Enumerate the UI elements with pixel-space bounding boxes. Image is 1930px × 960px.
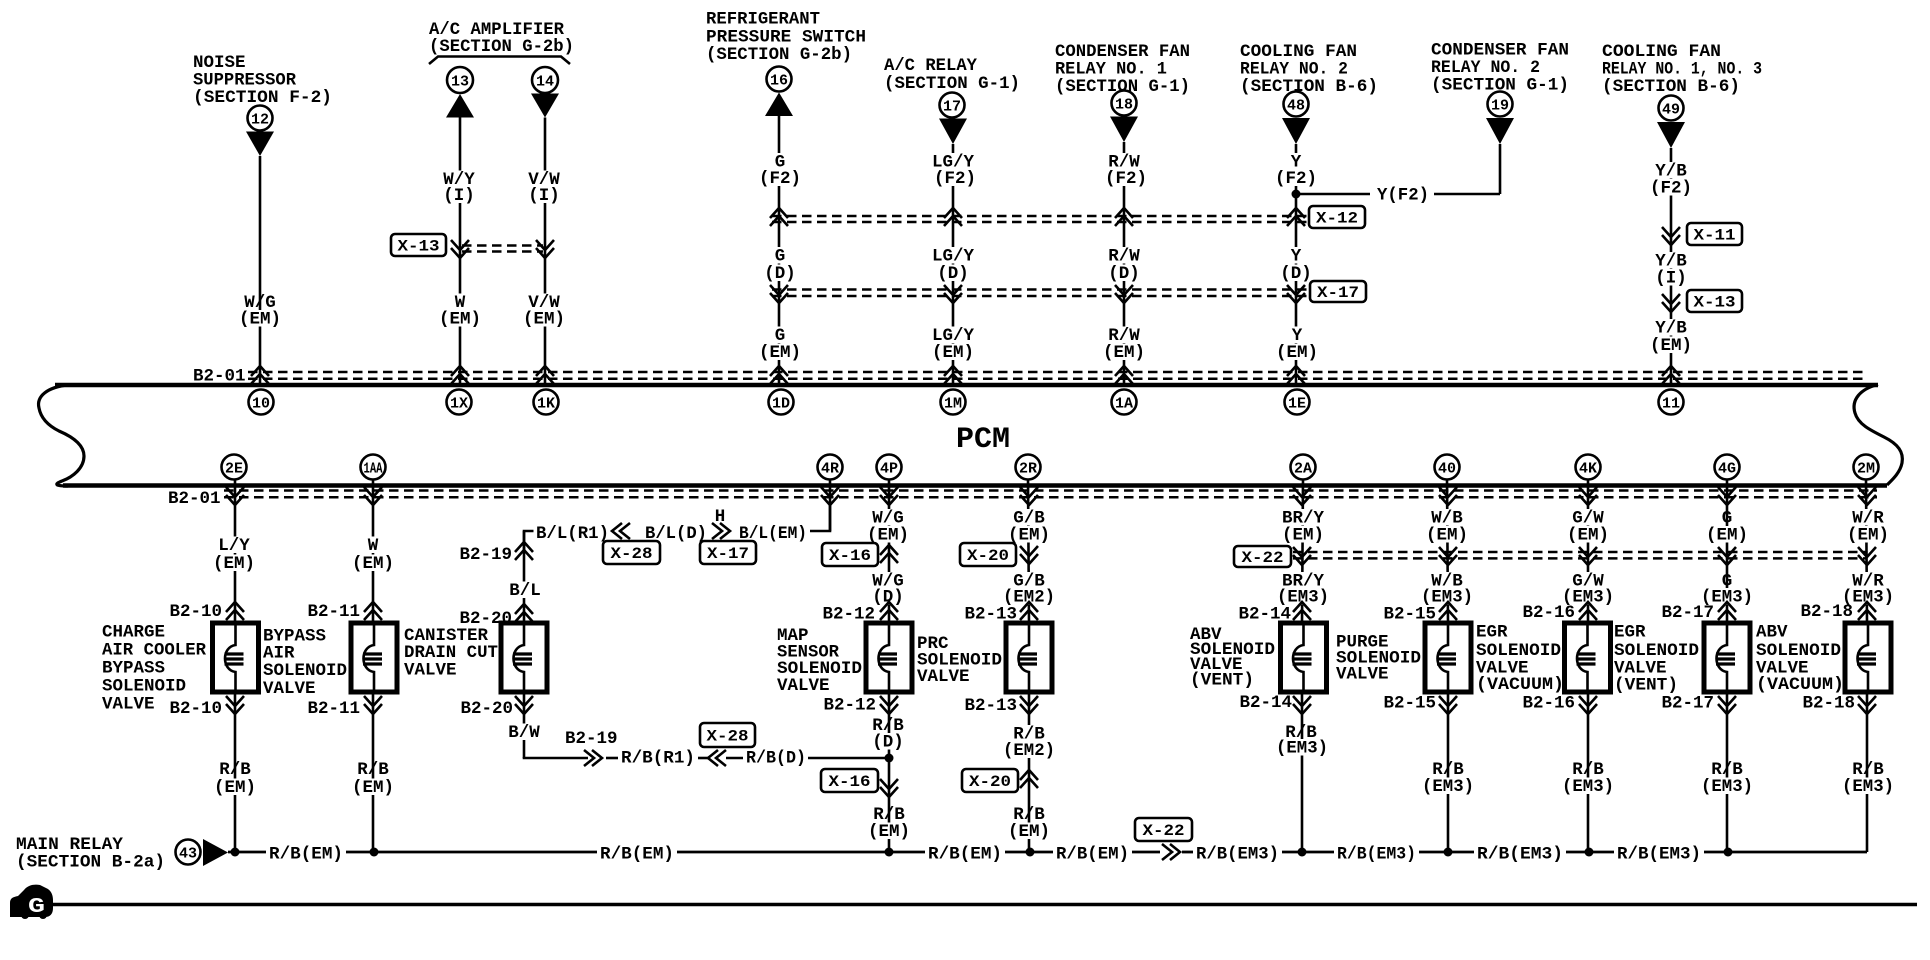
label W (EM): [365, 537, 381, 554]
wire R/B(D) to junction: [808, 757, 889, 760]
svg-text:1M: 1M: [944, 395, 962, 412]
inline connector X-22 on bus: [1162, 844, 1180, 860]
wire R/B col 40: [1447, 692, 1450, 852]
svg-text:X-20: X-20: [967, 547, 1009, 565]
wire R/B bus segment 10: [1704, 851, 1867, 854]
svg-text:CHARGE: CHARGE: [102, 623, 165, 643]
svg-text:49: 49: [1662, 101, 1680, 118]
svg-text:4G: 4G: [1718, 460, 1736, 477]
svg-text:B2-15: B2-15: [1383, 694, 1436, 714]
B2-01 top dashed upper: [248, 371, 1866, 374]
svg-text:(I): (I): [443, 186, 475, 206]
label W/B (EM3): [1429, 572, 1466, 589]
PCM pin 1E: [1285, 390, 1310, 415]
svg-text:ABV: ABV: [1756, 623, 1788, 643]
svg-text:12: 12: [251, 111, 269, 128]
B2-12 chevron (bottom): [880, 696, 898, 714]
svg-text:(SECTION G-1): (SECTION G-1): [884, 74, 1020, 94]
svg-text:B2-19: B2-19: [565, 729, 618, 749]
PCM pin 1A: [1112, 390, 1137, 415]
connector ref X-17: [1310, 281, 1366, 302]
svg-text:VALVE: VALVE: [777, 676, 830, 696]
svg-text:(I): (I): [528, 186, 560, 206]
X-13 dashed pair upper: [462, 244, 543, 247]
svg-text:Y(F2): Y(F2): [1377, 186, 1429, 206]
svg-text:R/B(EM3): R/B(EM3): [1477, 845, 1563, 865]
label G/B (EM): [1011, 509, 1048, 526]
connector ref X-12: [1309, 206, 1365, 228]
label Y (F2): [1288, 153, 1304, 170]
wire R/B bus segment 6: [1182, 851, 1193, 854]
connector ref X-28: [603, 541, 660, 564]
bus junction x=374: [370, 848, 379, 857]
wire to Y(F2) label: [1300, 193, 1370, 196]
wire Y col 48: [1295, 144, 1298, 385]
bus junction x=1302: [1298, 848, 1307, 857]
svg-text:BYPASS: BYPASS: [102, 659, 165, 679]
svg-text:(SECTION B-6): (SECTION B-6): [1602, 77, 1740, 97]
corner to R/B(R1): [524, 757, 588, 758]
svg-text:(EM): (EM): [214, 778, 256, 798]
svg-text:X-22: X-22: [1242, 549, 1284, 567]
connector ref X-20: [960, 543, 1016, 566]
svg-text:2R: 2R: [1019, 460, 1037, 477]
B2-16 chevron: [1579, 602, 1597, 620]
B2-14 chevron (bottom): [1293, 696, 1311, 714]
B2-18 chevron (bottom): [1858, 696, 1876, 714]
B2-10 chevron: [226, 602, 244, 620]
bus junction x=1589: [1585, 848, 1594, 857]
label LG/Y (EM): [929, 327, 976, 344]
svg-text:A/C RELAY: A/C RELAY: [884, 56, 977, 76]
X-16 chevron: [880, 545, 898, 563]
PCM pin 4P: [877, 455, 902, 480]
B2-15 chevron: [1439, 602, 1457, 620]
X-17 dashed upper: [772, 288, 1308, 291]
label V/W (I): [526, 171, 563, 188]
junction R/B(D): [885, 754, 894, 763]
wire G col 16: [778, 116, 781, 385]
B2-15 chevron (bottom): [1439, 696, 1457, 714]
PCM pin 1X: [447, 390, 472, 415]
svg-text:(VENT): (VENT): [1614, 676, 1678, 696]
label W/G (D): [870, 572, 907, 589]
label B/L(R1): [534, 525, 612, 542]
svg-text:X-22: X-22: [1143, 822, 1185, 840]
B2-01 chevron col 17: [944, 366, 962, 384]
svg-text:(D): (D): [872, 733, 904, 753]
svg-text:X-12: X-12: [1316, 210, 1358, 228]
connector 49 (cooling fan relay no.1,no.3): [1659, 96, 1684, 121]
charge air cooler bypass solenoid valve: [213, 623, 259, 692]
PCM bottom edge: [63, 483, 1887, 488]
X-22 chevron col 40: [1439, 547, 1457, 565]
svg-text:(F2): (F2): [934, 169, 976, 189]
label B/L: [507, 582, 544, 599]
B2-13 chevron (bottom): [1020, 696, 1038, 714]
B2-01 bottom dashed lower: [224, 496, 1877, 499]
wire R/B col 4G: [1726, 692, 1729, 852]
bus junction x=1448: [1444, 848, 1453, 857]
svg-text:R/B(R1): R/B(R1): [621, 749, 695, 769]
junction Y(F2): [1292, 190, 1301, 199]
bus junction x=889: [885, 848, 894, 857]
PCM pin 10: [249, 390, 274, 415]
connector ref X-11: [1687, 223, 1742, 245]
svg-text:R/B: R/B: [219, 760, 251, 780]
svg-text:B2-13: B2-13: [964, 696, 1017, 716]
B2-17 chevron: [1718, 602, 1736, 620]
PCM pin 2M: [1854, 455, 1879, 480]
PCM pin 1K: [534, 390, 559, 415]
svg-text:X-17: X-17: [1317, 284, 1359, 302]
svg-text:1A: 1A: [1115, 395, 1133, 412]
label R/B (EM2): [1011, 725, 1048, 742]
arrow into 48: [1282, 118, 1310, 144]
B2-18 chevron: [1858, 602, 1876, 620]
label W (EM): [452, 294, 468, 311]
X-20 chevron (lower): [1020, 770, 1038, 788]
label G (D): [772, 247, 788, 264]
wire W col 1AA: [372, 479, 375, 623]
svg-text:B2-11: B2-11: [307, 699, 360, 719]
connector ref X-17 (B/L): [700, 541, 756, 564]
wire W/R col 2M: [1866, 479, 1867, 623]
svg-text:18: 18: [1115, 96, 1133, 113]
B2-01 chevron col 18: [1115, 366, 1133, 384]
wire V/W col 14: [544, 118, 547, 386]
B2-11 chevron: [364, 602, 382, 620]
svg-text:(EM): (EM): [1103, 343, 1145, 363]
svg-text:(SECTION G-2b): (SECTION G-2b): [706, 45, 852, 65]
PCM pin 1AA: [361, 455, 386, 480]
svg-text:B2-19: B2-19: [459, 545, 512, 565]
svg-text:1AA: 1AA: [364, 460, 383, 477]
label BR/Y (EM): [1279, 509, 1326, 526]
svg-text:48: 48: [1287, 97, 1305, 114]
svg-text:B2-18: B2-18: [1800, 602, 1853, 622]
B2-14 chevron: [1293, 602, 1311, 620]
label W/R (EM): [1850, 509, 1887, 526]
wire R/B col 4K: [1587, 692, 1590, 852]
label W/R (EM3): [1850, 572, 1887, 589]
svg-text:19: 19: [1491, 97, 1509, 114]
svg-text:AIR COOLER: AIR COOLER: [102, 641, 206, 661]
connector ref X-16 (lower): [821, 769, 878, 792]
X-17 chevron col 48: [1287, 285, 1305, 303]
wire W/G col 12: [259, 156, 262, 385]
PCM pin 2R: [1016, 455, 1041, 480]
B2-13 chevron: [1020, 602, 1038, 620]
bypass air solenoid valve: [351, 623, 397, 692]
svg-text:(D): (D): [1108, 264, 1140, 284]
wire G/W col 4K: [1587, 479, 1590, 623]
egr solenoid valve (vent): [1704, 623, 1750, 692]
wire R/B bus segment 9: [1566, 851, 1614, 854]
wire pin 4R down: [829, 479, 832, 531]
svg-text:B2-16: B2-16: [1522, 603, 1575, 623]
svg-text:2E: 2E: [225, 460, 243, 477]
svg-text:11: 11: [1662, 395, 1680, 412]
svg-text:(EM): (EM): [352, 554, 394, 574]
connector 16 (refrigerant pressure switch): [767, 67, 792, 92]
svg-text:B2-10: B2-10: [169, 699, 222, 719]
B2-01 chevron below pin 40: [1439, 487, 1457, 505]
X-22 chevron col 4G: [1718, 547, 1736, 565]
arrow out of 13 (up): [446, 94, 474, 118]
X-12 dashed lower: [772, 221, 1307, 224]
svg-text:SOLENOID: SOLENOID: [102, 677, 186, 697]
connector ref X-22 (bus): [1135, 818, 1192, 841]
wire R/B bus segment 4: [1005, 851, 1053, 854]
svg-text:B/W: B/W: [508, 723, 540, 743]
svg-text:(EM): (EM): [759, 343, 801, 363]
X-13 connector chevron col 13: [451, 240, 469, 258]
svg-text:X-20: X-20: [969, 773, 1011, 791]
connector ref X-28 (lower): [700, 723, 755, 747]
purge solenoid valve: [1425, 623, 1471, 692]
svg-text:1D: 1D: [772, 395, 790, 412]
B2-17 chevron (bottom): [1718, 696, 1736, 714]
svg-text:(EM): (EM): [1276, 343, 1318, 363]
label W/Y (I): [441, 171, 478, 188]
wire R/B bus segment 5: [1132, 851, 1160, 854]
PCM top edge: [55, 383, 1878, 388]
wire R/B col 4P: [888, 692, 891, 852]
label BR/Y (EM3): [1279, 572, 1326, 589]
PCM pin 4G: [1715, 455, 1740, 480]
X-13 dashed pair lower: [462, 250, 543, 253]
wire R/B col 2A: [1301, 692, 1304, 852]
connector ref X-13 (col 49): [1687, 290, 1742, 312]
svg-text:R/B(EM): R/B(EM): [1056, 845, 1129, 865]
svg-text:B2-12: B2-12: [823, 696, 876, 716]
svg-text:R/B: R/B: [357, 760, 389, 780]
svg-text:B2-18: B2-18: [1802, 694, 1855, 714]
abv solenoid valve (vacuum): [1845, 623, 1891, 692]
svg-text:G: G: [28, 896, 45, 919]
svg-text:(EM): (EM): [352, 778, 394, 798]
label B/L(EM): [737, 525, 810, 542]
svg-text:(D): (D): [937, 264, 969, 284]
svg-text:REFRIGERANT: REFRIGERANT: [706, 10, 820, 30]
svg-text:(EM): (EM): [868, 822, 910, 842]
label V/W (EM): [526, 294, 563, 311]
svg-text:EGR: EGR: [1476, 623, 1508, 643]
inline connector X-28: [708, 750, 726, 766]
label Y(F2): [1375, 186, 1432, 203]
B2-01 bottom dashed upper: [224, 489, 1877, 492]
svg-text:16: 16: [770, 72, 788, 89]
wire Y(F2) to connector 19: [1434, 193, 1500, 196]
label Y (EM): [1289, 327, 1305, 344]
svg-text:(EM): (EM): [213, 554, 255, 574]
X-17 chevron col 17: [944, 285, 962, 303]
page separator line: [53, 903, 1917, 907]
X-20 chevron: [1020, 546, 1038, 564]
svg-text:R/B(EM): R/B(EM): [269, 845, 343, 865]
label R/W (F2): [1106, 153, 1143, 170]
svg-text:(D): (D): [1280, 264, 1312, 284]
wire B/W: [523, 692, 526, 758]
svg-text:(EM3): (EM3): [1276, 739, 1328, 759]
B2-01 chevron below pin 4P: [880, 487, 898, 505]
B2-01 chevron col 16: [770, 366, 788, 384]
label LG/Y (F2): [929, 153, 976, 170]
svg-text:VALVE: VALVE: [917, 667, 970, 687]
label LG/Y (D): [929, 247, 976, 264]
svg-text:X-17: X-17: [707, 545, 749, 563]
svg-text:(EM): (EM): [1847, 526, 1889, 546]
svg-text:X-28: X-28: [707, 728, 749, 746]
B2-10 chevron (bottom): [226, 696, 244, 714]
connector 48 (cooling fan relay no.2): [1284, 92, 1309, 117]
bus junction x=1728: [1724, 848, 1733, 857]
svg-text:(SECTION B-6): (SECTION B-6): [1240, 77, 1378, 97]
svg-text:X-16: X-16: [829, 547, 871, 565]
connector 14 (a/c amplifier): [532, 67, 558, 93]
X-12 chevron col 48: [1287, 208, 1305, 226]
wire LG/Y col 17: [952, 144, 955, 385]
svg-text:L/Y: L/Y: [218, 536, 250, 556]
B2-01 chevron below pin 1AA: [364, 487, 382, 505]
PCM pin 40: [1435, 455, 1460, 480]
svg-text:B2-20: B2-20: [460, 699, 513, 719]
B2-01 top dashed lower: [248, 378, 1866, 381]
svg-text:(VACUUM): (VACUUM): [1756, 675, 1844, 695]
svg-text:(EM): (EM): [1650, 336, 1692, 356]
svg-text:VALVE: VALVE: [404, 661, 457, 681]
svg-text:(F2): (F2): [1650, 179, 1692, 199]
connector 19 (condenser fan relay no.2): [1488, 92, 1513, 117]
svg-text:(EM): (EM): [1567, 526, 1609, 546]
PCM pin 2A: [1291, 455, 1316, 480]
svg-text:W: W: [368, 536, 379, 556]
svg-text:(EM): (EM): [439, 310, 481, 330]
bus junction x=235: [231, 848, 240, 857]
a/c amplifier bracket: [429, 57, 570, 65]
B2-11 chevron (bottom): [364, 696, 382, 714]
B2-01 chevron col 49: [1662, 366, 1680, 384]
svg-text:1X: 1X: [450, 395, 468, 412]
PCM right break squiggle: [1854, 385, 1902, 486]
B2-12 chevron: [880, 602, 898, 620]
svg-text:1K: 1K: [537, 395, 555, 412]
svg-text:4R: 4R: [821, 460, 839, 477]
PCM pin 1D: [769, 390, 794, 415]
connector ref X-22: [1234, 546, 1291, 567]
svg-text:(SECTION B-2a): (SECTION B-2a): [16, 853, 165, 873]
svg-text:R/B(EM): R/B(EM): [928, 845, 1002, 865]
label L/Y (EM): [216, 537, 253, 554]
svg-text:14: 14: [536, 73, 554, 90]
arrow out of 16 (up): [765, 93, 793, 117]
label Y/B (F2): [1653, 162, 1690, 179]
svg-text:(EM): (EM): [932, 343, 974, 363]
arrow into 14: [531, 94, 559, 118]
label R/B(R1): [619, 749, 698, 766]
svg-text:X-11: X-11: [1694, 227, 1736, 245]
X-22 chevron col 2M: [1858, 547, 1876, 565]
svg-text:B2-14: B2-14: [1239, 693, 1292, 713]
svg-text:2M: 2M: [1857, 460, 1875, 477]
svg-text:(EM): (EM): [1008, 822, 1050, 842]
wire W/B col 40: [1447, 479, 1448, 623]
label R/W (EM): [1106, 327, 1143, 344]
wire R/B bus segment 3: [677, 851, 925, 854]
label W/B (EM): [1429, 509, 1466, 526]
PCM pin 11: [1659, 390, 1684, 415]
X-12 dashed upper: [772, 215, 1307, 218]
arrow into 17: [939, 119, 967, 145]
svg-text:B2-11: B2-11: [307, 602, 360, 622]
svg-text:(D): (D): [764, 264, 796, 284]
svg-text:VALVE: VALVE: [1336, 665, 1389, 685]
label B/W: [506, 724, 543, 741]
B2-20 chevron (bottom): [515, 696, 533, 714]
B2-01 chevron col 14: [536, 366, 554, 384]
wire G/B col 2R: [1028, 479, 1029, 623]
B2-01 connector chevron col 12: [251, 366, 269, 384]
X-11 chevron col 49: [1662, 227, 1680, 245]
wire Y/B col 49: [1670, 148, 1673, 385]
X-12 chevron col 18: [1115, 208, 1133, 226]
label B/L(D): [643, 525, 710, 542]
arrow into 19: [1486, 118, 1514, 144]
stub: [726, 757, 743, 760]
bus junction x=1030: [1026, 848, 1035, 857]
svg-text:43: 43: [179, 845, 197, 862]
X-13 connector chevron col 14: [536, 240, 554, 258]
connector 12 (noise suppressor): [248, 106, 273, 131]
svg-text:PCM: PCM: [956, 423, 1010, 457]
label G/W (EM): [1570, 509, 1607, 526]
arrow from main relay: [203, 839, 228, 866]
svg-text:X-28: X-28: [611, 545, 653, 563]
label G/B (EM2): [1011, 572, 1048, 589]
svg-text:(EM): (EM): [1282, 526, 1324, 546]
wire R/B bus segment 7: [1282, 851, 1334, 854]
connector ref X-13: [391, 234, 446, 256]
svg-text:17: 17: [943, 98, 961, 115]
svg-text:40: 40: [1438, 460, 1456, 477]
PCM pin 4R: [818, 455, 843, 480]
label G (F2): [772, 153, 788, 170]
svg-text:B2-17: B2-17: [1661, 603, 1714, 623]
svg-text:(VENT): (VENT): [1190, 671, 1254, 691]
prc solenoid valve: [1006, 623, 1052, 692]
svg-text:X-13: X-13: [1694, 294, 1736, 312]
map sensor solenoid valve: [866, 623, 912, 692]
arrow into 18: [1110, 117, 1138, 143]
wire BR/Y col 2A: [1302, 479, 1303, 623]
connector 43 (main relay): [176, 840, 201, 865]
svg-text:1E: 1E: [1288, 395, 1306, 412]
svg-text:(EM): (EM): [1426, 526, 1468, 546]
svg-text:(I): (I): [1655, 269, 1687, 289]
wire R/W col 18: [1123, 142, 1126, 385]
PCM pin 1M: [941, 390, 966, 415]
stub: [698, 757, 708, 760]
label Y/B (I): [1653, 252, 1690, 269]
canister drain cut valve: [501, 623, 547, 692]
svg-text:X-13: X-13: [398, 238, 440, 256]
svg-text:VALVE: VALVE: [102, 695, 155, 715]
B2-01 chevron below pin 2E: [226, 487, 244, 505]
arrow into 49: [1657, 122, 1685, 148]
PCM pin 2E: [222, 455, 247, 480]
X-17 chevron col 18: [1115, 285, 1133, 303]
